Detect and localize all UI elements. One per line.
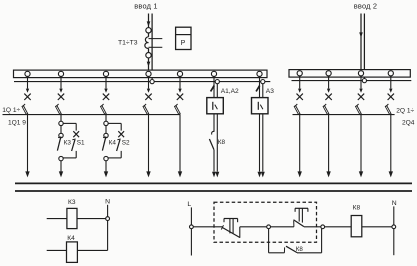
N bus line right <box>292 80 412 82</box>
svg-text:Р: Р <box>181 40 186 47</box>
pushbutton SB2 start (NO): contact blade <box>294 220 304 227</box>
wire feeder drop above bypass (x=61.0) <box>60 115 62 122</box>
circuit breaker QF feeder 2 right (arrow + X) <box>325 76 331 100</box>
wire А1,А2 phase line upper <box>213 77 215 98</box>
wire feeder 2 right drop <box>328 115 330 172</box>
N bus line left <box>14 81 270 83</box>
wire А3 phase lower <box>259 114 261 172</box>
arrow А1,А2 phase to load <box>212 172 216 178</box>
svg-text:К4: К4 <box>67 235 75 242</box>
svg-text:2Q4: 2Q4 <box>402 119 415 126</box>
wire node to SB2 <box>271 226 294 228</box>
node bypass top circle (К3) <box>59 121 63 125</box>
disconnector blade 2Q feeder 2 <box>324 104 329 114</box>
svg-text:К4: К4 <box>109 139 117 146</box>
wire K3 branch to N <box>77 218 106 220</box>
svg-text:К8: К8 <box>353 204 361 211</box>
node busbar-2 tap circle feeder 1 <box>297 71 302 76</box>
switch bus line 1Q <box>3 114 181 116</box>
node N-bus connection input-1 neutral <box>150 80 154 84</box>
label S2 <box>122 139 130 146</box>
node junction self-hold right <box>321 225 325 229</box>
arrow feeder 4 left to load <box>146 171 150 177</box>
disconnector blade 2Q feeder 4 <box>386 104 391 114</box>
relay contact К8 on A1,A2 line (open blade) <box>209 131 214 150</box>
circuit breaker QF feeder 4 right (arrow + X) <box>388 76 394 100</box>
wire feeder 5 left drop <box>179 115 181 172</box>
wire bypass mid segment (К3) <box>60 126 62 134</box>
circuit breaker QF feeder 2 left (arrow + X) <box>58 77 64 101</box>
wire bypass branch top (S1) <box>63 123 76 130</box>
node busbar-1 tap circle feeder A3 <box>257 71 262 76</box>
label S1 <box>77 139 85 146</box>
svg-text:ввод 1: ввод 1 <box>134 1 157 10</box>
node bypass middle circle (К4) <box>104 133 108 137</box>
node bypass middle circle (К3) <box>59 133 63 137</box>
wire А3 phase line upper <box>259 77 261 98</box>
arrow input-1 upper flow arrow <box>147 21 151 26</box>
device box А1,А2 (SPD) <box>207 98 224 114</box>
svg-text:1Q1 9: 1Q1 9 <box>8 119 26 126</box>
wire node to K8 coil <box>325 226 352 228</box>
wire А1,А2 neutral line upper <box>216 84 218 98</box>
wire feeder drop below bypass (x=106.0) <box>105 161 107 172</box>
disconnector blade 2Q feeder 3 <box>356 104 361 114</box>
label 1Q 1÷ <box>2 107 20 114</box>
wire input-1 phase conductor <box>148 14 150 71</box>
wire feeder 1 left drop <box>27 115 29 172</box>
disconnector blade 1Q feeder 4 <box>144 104 149 114</box>
pushbutton SB2 start (NO): cap <box>295 208 308 212</box>
wire self-hold branch right/up <box>297 229 322 253</box>
arrow А3 phase to load <box>258 172 262 178</box>
bottom bus line upper <box>15 182 412 184</box>
node busbar-1 tap circle feeder 2 <box>58 71 63 76</box>
svg-text:S1: S1 <box>77 139 85 146</box>
wire K3 branch left stub <box>47 218 67 220</box>
arrow А3 neutral to load <box>261 172 265 178</box>
label L <box>187 201 191 208</box>
node junction K8/N <box>392 225 396 229</box>
label К3 (coil) <box>68 199 76 206</box>
label А3 <box>266 88 274 95</box>
pushbutton SB1 stop (NC): cap <box>224 219 238 223</box>
svg-text:1Q 1÷: 1Q 1÷ <box>2 107 20 114</box>
circuit breaker QF feeder 5 left (arrow + X) <box>177 77 183 101</box>
svg-text:А1,А2: А1,А2 <box>221 88 239 95</box>
wire feeder 3 right drop <box>360 115 362 172</box>
node busbar-1 tap circle feeder 1 <box>25 71 30 76</box>
label N (left control) <box>105 199 110 206</box>
node connection point below CT <box>146 53 151 58</box>
disconnect tick on А1,А2 line <box>211 86 215 92</box>
wire feeder 1 right drop <box>299 115 301 172</box>
node busbar-2 tap circle feeder 3 <box>358 71 363 76</box>
arrow А1,А2 neutral to load <box>215 172 219 178</box>
label К8 (coil) <box>353 204 361 211</box>
svg-text:К3: К3 <box>64 139 72 146</box>
svg-text:К3: К3 <box>68 199 76 206</box>
wire K4 branch left stub <box>47 249 67 251</box>
wire А3 neutral line upper <box>262 84 264 98</box>
wire input-2 neutral conductor <box>363 14 365 79</box>
wire А1,А2 neutral lower <box>216 114 218 172</box>
device box А3 (SPD) <box>252 98 269 114</box>
wire bypass branch bottom (S2) <box>108 151 121 158</box>
label К8 (contact) <box>218 139 226 146</box>
pushbutton SB1 stop (NC): stem <box>230 219 233 234</box>
wire А1,А2 phase lower <box>213 150 215 172</box>
label input 2 (ввод 2) <box>354 1 377 10</box>
label 2Q 1÷ <box>396 107 414 114</box>
node bypass bottom circle (К4) <box>104 156 108 160</box>
circuit breaker QF feeder 1 right (arrow + X) <box>297 76 303 100</box>
node busbar-1 tap circle feeder 5 <box>177 71 182 76</box>
node N-bus connection input-2 neutral <box>362 79 366 83</box>
svg-text:Т1÷Т3: Т1÷Т3 <box>118 39 138 46</box>
wire А1,А2 phase below box <box>213 114 215 132</box>
svg-text:К8: К8 <box>218 139 226 146</box>
node connection point above CT <box>146 28 151 33</box>
contactor contact К4 (open blade) <box>102 137 106 151</box>
wire bypass branch top (S2) <box>108 123 121 130</box>
contactor contact К3 (open blade) <box>57 137 61 151</box>
circuit breaker QF feeder 3 left (arrow + X) <box>103 77 109 101</box>
circuit breaker QF feeder 3 right (arrow + X) <box>358 76 364 100</box>
node bypass top circle (К4) <box>104 121 108 125</box>
wire N line right control <box>393 206 395 255</box>
circuit breaker QF feeder 4 left (arrow + X) <box>145 77 151 101</box>
arrow feeder 2 right to load <box>326 171 330 177</box>
wire N line left control <box>107 205 109 251</box>
wire K4 branch to N corner <box>77 249 107 251</box>
disconnector blade 1Q feeder 3 <box>101 104 106 114</box>
node junction K3/N <box>106 217 110 221</box>
label 2Q4 <box>402 119 415 126</box>
label T1÷T3 <box>118 39 138 46</box>
wire feeder drop below bypass (x=61.0) <box>60 161 62 172</box>
arrow feeder 4 right to load <box>389 171 393 177</box>
wire SB2 to node <box>304 226 321 228</box>
fuse/breaker X in branch (S2) <box>118 131 124 137</box>
label 1Q1 9 <box>8 119 26 126</box>
switch bus line 2Q <box>293 114 395 116</box>
label К4 (coil) <box>67 235 75 242</box>
label А1,А2 <box>221 88 239 95</box>
wire feeder 4 right drop <box>390 115 392 172</box>
label N (right control) <box>392 200 397 207</box>
disconnector blade 2Q feeder 1 <box>295 104 300 114</box>
arrow feeder 1 left to load <box>25 171 29 177</box>
node busbar-1 tap circle feeder A1,A2 <box>211 71 216 76</box>
wire K8 coil to N <box>362 226 392 228</box>
arrow feeder 1 right to load <box>298 171 302 177</box>
relay coil К3 <box>67 208 77 228</box>
fuse/breaker X in branch (S1) <box>73 131 79 137</box>
disconnector blade 1Q feeder 2 <box>56 104 61 114</box>
busbar section 1 (left) <box>14 70 268 78</box>
arrow feeder 5 left to load <box>178 171 182 177</box>
switch contact S2 (open blade) <box>117 139 121 151</box>
wire bypass branch bottom (S1) <box>63 151 76 158</box>
node busbar-1 tap circle feeder 4 (input-1 drop) <box>146 71 151 76</box>
meter P box <box>176 27 191 49</box>
bottom bus line lower <box>15 190 412 192</box>
svg-text:2Q 1÷: 2Q 1÷ <box>396 107 414 114</box>
label К8 (self-hold contact) <box>296 246 304 253</box>
pushbutton SB2 start (NO): stem <box>299 208 302 222</box>
node junction self-hold left <box>267 225 271 229</box>
node bypass bottom circle (К3) <box>59 156 63 160</box>
disconnector blade 1Q feeder 5 <box>175 104 180 114</box>
arrow input-2 flow arrow <box>359 32 363 37</box>
node N-bus connection feeder A3 <box>261 80 265 84</box>
arrow feeder to load below К3 <box>59 171 63 177</box>
current transformer T1-T3 (Т1÷Т3) <box>145 37 162 49</box>
wire input-1 neutral conductor <box>151 14 153 80</box>
wire between buttons <box>240 226 267 228</box>
relay contact К8 self-hold (NO blade) <box>284 246 297 253</box>
disconnector blade 1Q feeder 1 <box>23 104 28 114</box>
wire input-2 phase conductor <box>360 14 362 71</box>
label К3 <box>64 139 72 146</box>
relay coil К4 <box>67 242 78 263</box>
svg-text:ввод 2: ввод 2 <box>354 1 377 10</box>
arrow input-1 lower flow arrow <box>147 62 151 67</box>
wire А3 neutral lower <box>262 114 264 172</box>
arrow feeder 3 right to load <box>359 171 363 177</box>
svg-text:L: L <box>187 201 191 208</box>
label К4 <box>109 139 117 146</box>
arrow feeder to load below К4 <box>104 171 108 177</box>
busbar section 2 (right) <box>289 70 410 78</box>
disconnect tick on А3 line <box>256 86 260 92</box>
label input 1 (ввод 1) <box>134 1 157 10</box>
circuit breaker QF feeder 1 left (arrow + X) <box>24 77 30 101</box>
wire main control line to button box <box>193 226 222 228</box>
node busbar-2 tap circle feeder 2 <box>326 71 331 76</box>
node busbar-2 tap circle feeder 4 <box>388 71 393 76</box>
relay coil К8 <box>351 216 362 237</box>
wire bypass mid segment (К4) <box>105 126 107 134</box>
node busbar-1 tap circle feeder 3 <box>103 71 108 76</box>
svg-text:N: N <box>392 200 397 207</box>
wire feeder drop above bypass (x=106.0) <box>105 115 107 122</box>
pushbutton SB1 stop (NC): contact blade <box>221 225 240 238</box>
svg-text:S2: S2 <box>122 139 130 146</box>
wire self-hold branch down/left <box>269 229 285 253</box>
node N-bus connection feeder A1,A2 <box>215 80 219 84</box>
svg-text:N: N <box>105 199 110 206</box>
svg-text:А3: А3 <box>266 88 274 95</box>
dashed enclosure (push-button station) <box>214 202 317 242</box>
wire L line <box>190 207 192 255</box>
wire feeder 4 left drop <box>148 115 150 172</box>
node junction L/main <box>190 225 194 229</box>
switch contact S1 (open blade) <box>72 139 76 151</box>
svg-text:К8: К8 <box>296 246 304 253</box>
